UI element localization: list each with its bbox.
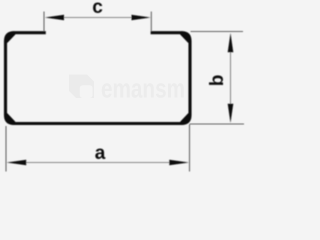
corner chamfer bottom-left [6, 115, 13, 123]
extension line b top [191, 31, 244, 33]
extension line a left [5, 126, 7, 172]
profile outline (slotted tube cross-section) [6, 33, 191, 124]
corner chamfer top-left [6, 33, 13, 41]
arrow a left [7, 160, 27, 166]
dimension line a [25, 162, 171, 164]
arrow a right [169, 160, 189, 166]
corner chamfer bottom-right [182, 115, 189, 123]
watermark logo hole [80, 85, 93, 98]
arrow c right [132, 15, 151, 21]
dimension line c [60, 17, 136, 19]
arrow c left [45, 15, 64, 21]
svg-text:emansm: emansm [101, 74, 185, 104]
extension line b bottom [190, 123, 245, 125]
svg-text:b: b [207, 75, 228, 87]
corner chamfer top-right [182, 33, 189, 41]
svg-text:a: a [95, 143, 106, 164]
svg-text:c: c [92, 0, 103, 18]
extension line c left [43, 12, 45, 32]
watermark logo [69, 75, 94, 99]
extension line a right [189, 125, 191, 172]
arrow b top [228, 33, 234, 52]
dimension line b [230, 50, 232, 106]
extension line c right [150, 12, 152, 32]
arrow b bottom [228, 104, 234, 123]
